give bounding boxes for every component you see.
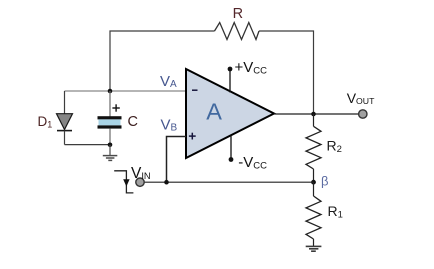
wire feedback bottom [144,181,313,183]
svg-text:R2: R2 [327,138,342,156]
resistor R1 [306,196,321,239]
node -Vcc dot [229,157,234,162]
svg-text:VOUT: VOUT [347,90,375,106]
wire R1 top lead [313,182,315,196]
ground left [103,145,118,161]
op-amp U1 [186,69,274,158]
wire output [274,113,358,115]
wire capacitor top lead [109,91,111,117]
node beta [311,180,316,185]
node output junction [311,112,316,117]
svg-text:β: β [321,173,328,188]
wire capacitor bottom lead [109,129,111,145]
wire R2 top lead [313,114,315,126]
svg-text:VB: VB [161,117,178,134]
op-amp plus sign [189,135,196,137]
wire -Vcc [230,135,232,159]
capacitor plus sign [112,107,119,109]
capacitor C [98,116,122,119]
svg-text:R: R [233,6,243,22]
step input symbol [114,171,133,193]
wire +Vcc [229,69,231,93]
svg-text:+VCC: +VCC [235,59,268,77]
svg-text:VA: VA [160,73,177,90]
diode D1 [57,114,73,130]
ground right [306,246,322,251]
wire R1 bottom lead [313,239,315,246]
wire inverting input VA [65,90,187,92]
svg-text:C: C [128,114,138,130]
node junction C bottom [108,143,113,148]
wire diode branch bottom [64,131,66,145]
resistor R [215,23,260,40]
node +Vcc dot [228,67,233,72]
svg-text:A: A [206,98,222,124]
resistor R2 [306,126,321,169]
svg-text:D1: D1 [38,114,53,130]
terminal Vout [359,110,367,118]
svg-text:-VCC: -VCC [238,154,267,172]
op-amp minus sign [192,89,198,91]
svg-text:R1: R1 [328,203,343,221]
wire VB corner [167,137,187,183]
wire R2 bottom lead [313,169,315,182]
wire top feedback left segment [110,31,215,91]
node junction VB bottom [164,180,169,185]
wire bottom left [65,144,111,146]
wire top feedback right segment [259,31,314,114]
terminal Vin [136,178,144,186]
svg-text:VIN: VIN [131,165,151,182]
wire diode branch top [64,91,66,115]
node junction VA [108,89,113,94]
